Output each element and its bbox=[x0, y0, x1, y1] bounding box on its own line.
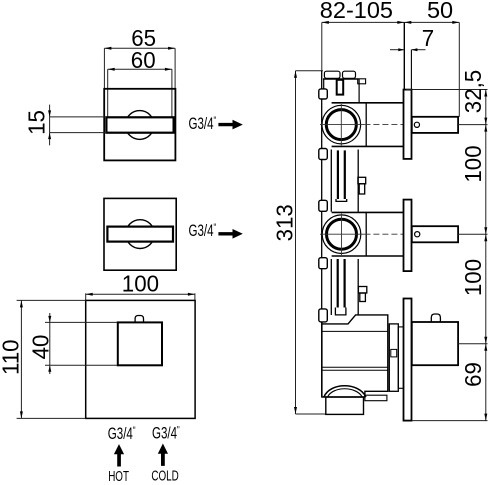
cartridge 2 bottom-left ear bbox=[319, 258, 328, 269]
right stack detail bbox=[391, 349, 397, 357]
svg-text:COLD: COLD bbox=[151, 468, 178, 484]
handle 1 set screw bbox=[414, 122, 419, 127]
outlet arrow fig2 bbox=[218, 229, 242, 239]
svg-text:15: 15 bbox=[23, 110, 50, 135]
dim line 7 bbox=[390, 49, 426, 51]
connecting pipe 1 bbox=[338, 150, 345, 199]
mixer box internal lines bbox=[322, 331, 388, 370]
handle 3 side view bbox=[412, 322, 458, 365]
cartridge 1 shoulder bottom bbox=[332, 145, 404, 147]
dim line 50 bbox=[404, 22, 459, 116]
right stack plate B bbox=[398, 327, 404, 388]
centerline cartridge 2 bbox=[364, 233, 405, 235]
dim line 313 bbox=[296, 71, 326, 414]
svg-text:HOT: HOT bbox=[108, 468, 129, 484]
cartridge 2 inner ring bbox=[327, 219, 357, 249]
svg-text:G3/4": G3/4" bbox=[189, 220, 217, 240]
handle 2 side view bbox=[412, 226, 458, 242]
cartridge 2 shoulder bottom bbox=[332, 255, 404, 257]
cartridge 1 cap plate bbox=[323, 78, 358, 80]
cartridge 1 crosshair bbox=[320, 104, 364, 146]
temperature knob fig3 bbox=[135, 316, 143, 323]
mounting rail left edge bbox=[321, 71, 323, 397]
dim line 100 bbox=[86, 293, 195, 300]
svg-text:110: 110 bbox=[0, 339, 23, 375]
cartridge 2 outer circle bbox=[322, 215, 361, 254]
connecting pipe 2 bbox=[338, 259, 345, 308]
mixer outlet arch outer bbox=[324, 386, 366, 397]
wall plate edge 2 bbox=[404, 200, 412, 272]
svg-text:7: 7 bbox=[422, 24, 434, 51]
plate square fig3 bbox=[86, 300, 195, 418]
connecting pipe 1 cap bbox=[336, 199, 347, 201]
inlet arrow cold bbox=[158, 444, 168, 466]
svg-text:G3/4": G3/4" bbox=[152, 423, 180, 443]
right stack plate A bbox=[389, 324, 398, 391]
mixer box outline bbox=[322, 315, 388, 397]
cartridge 1 stem bbox=[337, 80, 344, 95]
svg-text:100: 100 bbox=[122, 270, 159, 297]
mixer box top-left ear bbox=[319, 309, 328, 322]
connecting body 1 sides bbox=[331, 150, 358, 212]
outlet arrow fig1 bbox=[218, 120, 242, 130]
wall plate edge 3 bbox=[404, 299, 412, 421]
dim 15 extension lines bbox=[50, 105, 107, 146]
finished wall line bbox=[410, 50, 412, 90]
svg-text:313: 313 bbox=[271, 204, 298, 241]
handle 1 side view bbox=[412, 117, 458, 133]
cartridge 1 outer circle bbox=[322, 105, 361, 144]
right dimension line bbox=[485, 90, 487, 421]
centerline cartridge 1 bbox=[364, 124, 405, 126]
cartridge 1 upper block sides bbox=[324, 79, 359, 103]
svg-text:50: 50 bbox=[427, 0, 453, 23]
cartridge 1 bottom-left ear bbox=[319, 149, 328, 160]
bottom outlet stub bbox=[326, 397, 364, 414]
svg-text:32,5: 32,5 bbox=[459, 70, 486, 113]
cartridge 2 housing right edge bbox=[365, 212, 367, 256]
cartridge 2 crosshair bbox=[320, 214, 364, 256]
cartridge 1 inner ring bbox=[326, 110, 356, 140]
valve cap circle fig2 bbox=[126, 220, 155, 249]
handle 2 set screw bbox=[415, 232, 420, 237]
svg-text:82-105: 82-105 bbox=[320, 0, 393, 23]
handle 3 knob bbox=[431, 314, 440, 322]
dim line 82-105 bbox=[322, 22, 405, 70]
handle bar fig2 bbox=[107, 227, 173, 242]
handle bar fig1 bbox=[106, 117, 173, 132]
cartridge 1 shoulder top bbox=[332, 102, 404, 104]
cartridge 1 housing right edge bbox=[365, 103, 367, 147]
svg-text:100: 100 bbox=[459, 259, 486, 296]
right dim arrows bbox=[484, 90, 487, 421]
connecting pipe 2 flare bbox=[335, 308, 346, 315]
mixer outlet arch inner bbox=[328, 389, 363, 397]
svg-text:40: 40 bbox=[27, 335, 54, 360]
cartridge 2 shoulder top bbox=[332, 211, 404, 213]
dim 40 extension lines bbox=[45, 313, 118, 374]
svg-text:69: 69 bbox=[459, 362, 486, 387]
svg-text:100: 100 bbox=[459, 145, 486, 182]
handle square fig3 bbox=[118, 322, 162, 365]
valve cap circle fig1 bbox=[125, 111, 154, 140]
cartridge 2 top-left ear bbox=[319, 200, 328, 211]
cartridge 1 cap tabs bbox=[324, 71, 355, 78]
escutcheon square fig2 bbox=[104, 198, 176, 270]
escutcheon square fig1 bbox=[104, 89, 175, 161]
plug screw 2 bbox=[358, 287, 366, 302]
mixer bottom-right foot bbox=[365, 395, 387, 401]
dim 40 arrows bbox=[48, 316, 51, 372]
dim 110 arrows bbox=[20, 300, 23, 418]
cartridge 1 right tab bbox=[358, 79, 366, 84]
connecting body 2 sides bbox=[331, 259, 358, 315]
plug screw 1 bbox=[358, 177, 366, 194]
inlet arrow hot bbox=[114, 444, 124, 466]
wall plate edge 1 bbox=[404, 90, 412, 159]
svg-text:G3/4": G3/4" bbox=[189, 113, 217, 133]
dim 15 arrows bbox=[48, 110, 51, 139]
dim line 60 bbox=[108, 69, 172, 117]
svg-text:G3/4": G3/4" bbox=[108, 423, 136, 443]
right extension lines bbox=[406, 90, 488, 421]
cartridge 1 top-left ear bbox=[319, 89, 328, 99]
dim 110 extension lines bbox=[17, 300, 86, 418]
wall line bbox=[403, 22, 405, 89]
dim line 65 bbox=[104, 48, 175, 88]
